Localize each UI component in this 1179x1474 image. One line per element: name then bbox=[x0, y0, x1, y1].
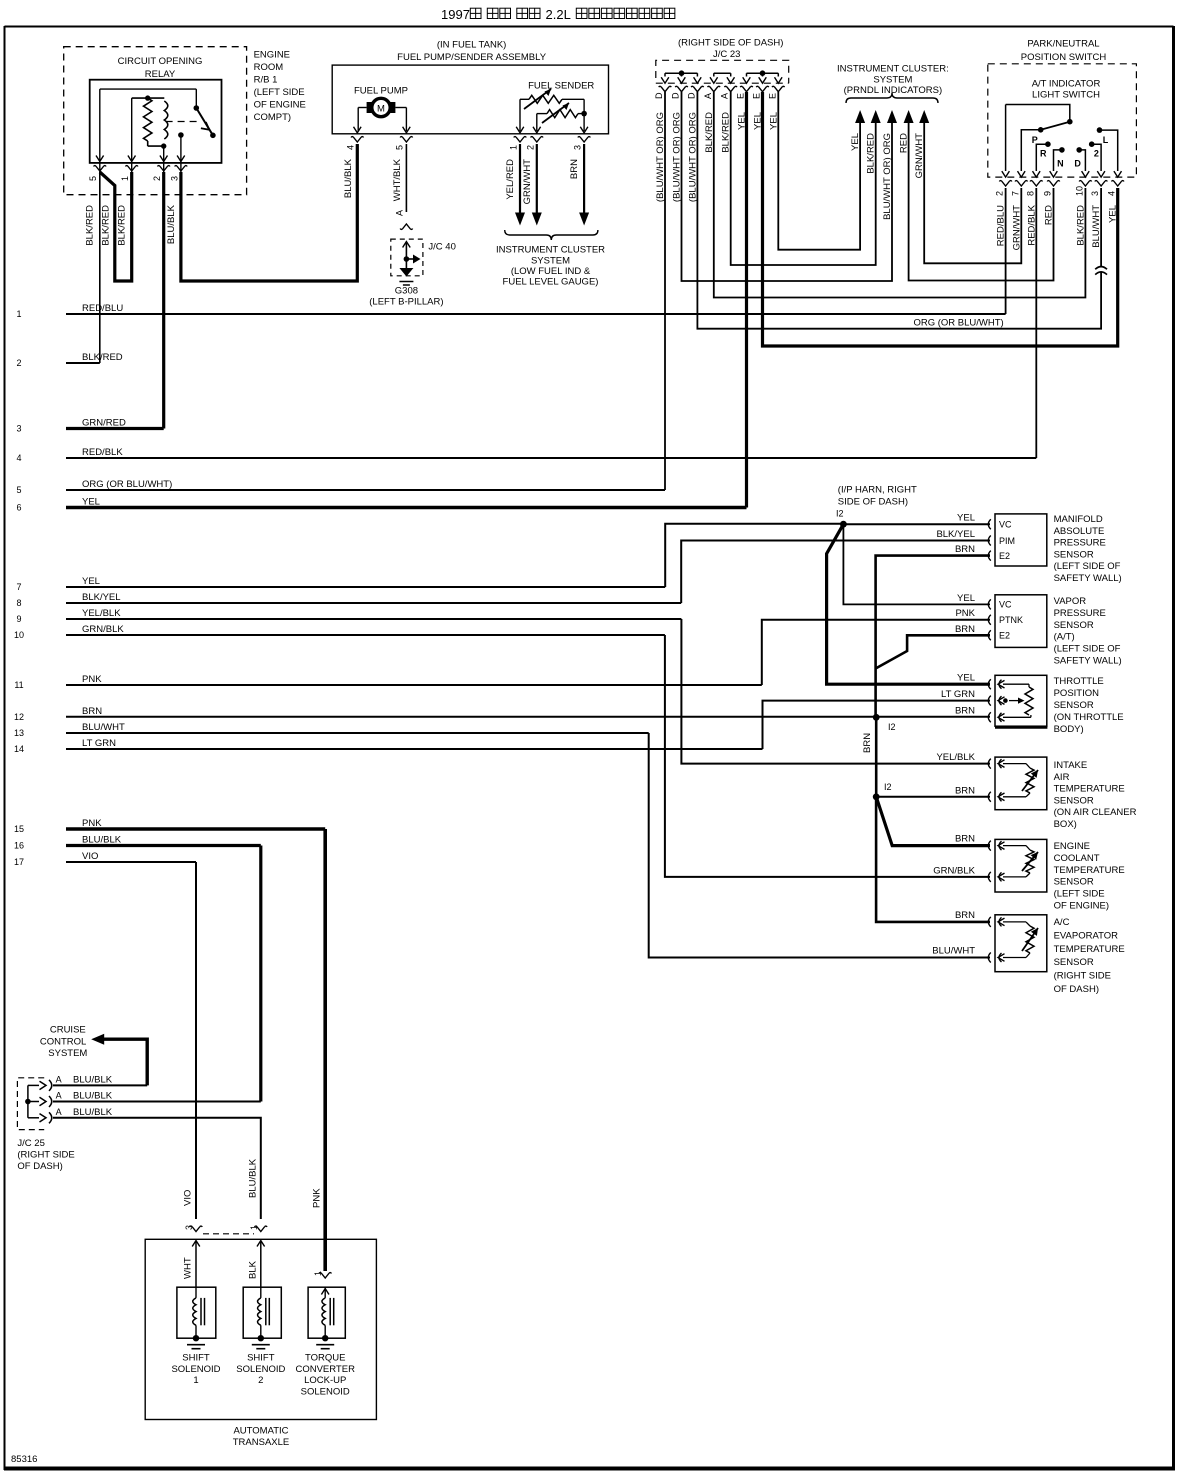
svg-text:7: 7 bbox=[16, 582, 21, 592]
wire: BRN I2 diagonal to ECT (heavy) bbox=[876, 797, 990, 846]
vapor pressure sensor bbox=[988, 595, 1121, 667]
svg-text:TRANSAXLE: TRANSAXLE bbox=[233, 1437, 290, 1448]
svg-text:YEL: YEL bbox=[957, 593, 975, 604]
svg-text:YEL: YEL bbox=[82, 576, 100, 587]
svg-text:BRN: BRN bbox=[955, 705, 975, 716]
svg-text:G308: G308 bbox=[395, 286, 418, 297]
J/C 23 internal bus D bbox=[665, 70, 697, 76]
svg-text:GRN/WHT: GRN/WHT bbox=[522, 159, 533, 205]
svg-text:BRN: BRN bbox=[955, 785, 975, 796]
svg-text:(LEFT SIDE: (LEFT SIDE bbox=[254, 87, 305, 98]
crossover hop on BLU/WHT wire bbox=[1095, 267, 1107, 275]
svg-text:(ON THROTTLE: (ON THROTTLE bbox=[1054, 712, 1124, 723]
shift solenoid 1 bbox=[171, 1287, 220, 1386]
wire 2 riser to relay pin 5 bbox=[99, 172, 101, 363]
svg-text:BLU/BLK: BLU/BLK bbox=[343, 158, 354, 198]
svg-text:RED/BLK: RED/BLK bbox=[82, 447, 123, 458]
svg-text:R/B 1: R/B 1 bbox=[254, 75, 278, 86]
J/C 23 pin E (E3) YEL bbox=[767, 77, 784, 130]
engine coolant temperature sensor bbox=[988, 839, 1124, 911]
wire: cluster RED to P/N pin 9 bbox=[909, 123, 1054, 281]
wire: J/C23 A2 BLK/RED to cluster BLK/RED bbox=[731, 92, 876, 265]
wire: J/C23 D2 ORG to cluster ORG bbox=[682, 92, 893, 281]
svg-text:PARK/NEUTRAL: PARK/NEUTRAL bbox=[1027, 39, 1099, 50]
torque converter solenoid pin 1 (PNK) bbox=[313, 1271, 331, 1295]
svg-text:7: 7 bbox=[1010, 191, 1020, 196]
instrument cluster system (PRNDL indicators) bbox=[837, 64, 949, 104]
svg-text:SIDE OF DASH): SIDE OF DASH) bbox=[838, 497, 908, 508]
svg-text:FUEL LEVEL GAUGE): FUEL LEVEL GAUGE) bbox=[503, 277, 599, 288]
svg-text:FUEL PUMP/SENDER ASSEMBLY: FUEL PUMP/SENDER ASSEMBLY bbox=[397, 52, 547, 63]
svg-text:I2: I2 bbox=[884, 782, 892, 792]
svg-text:(LEFT SIDE OF: (LEFT SIDE OF bbox=[1054, 561, 1121, 572]
svg-text:A: A bbox=[720, 93, 730, 99]
svg-text:A: A bbox=[395, 210, 405, 216]
cluster PRNDL arrow GRN/WHT bbox=[914, 110, 929, 178]
svg-text:ROOM: ROOM bbox=[254, 62, 284, 73]
wire: cluster GRN/WHT to P/N pin 7 bbox=[924, 123, 1021, 263]
svg-text:PNK: PNK bbox=[955, 608, 975, 619]
svg-text:SHIFT: SHIFT bbox=[247, 1353, 275, 1364]
svg-text:BLU/WHT: BLU/WHT bbox=[932, 946, 975, 957]
wire: J/C23 E3 YEL to cluster YEL bbox=[778, 92, 860, 250]
svg-text:1: 1 bbox=[249, 1225, 259, 1230]
svg-text:YEL: YEL bbox=[957, 673, 975, 684]
svg-text:A/T INDICATOR: A/T INDICATOR bbox=[1032, 79, 1101, 90]
svg-text:LOCK-UP: LOCK-UP bbox=[304, 1375, 346, 1386]
park/neutral pin 4 YEL bbox=[1107, 171, 1124, 223]
svg-text:D: D bbox=[686, 92, 696, 99]
svg-text:YEL/RED: YEL/RED bbox=[505, 159, 516, 200]
svg-text:SENSOR: SENSOR bbox=[1054, 877, 1094, 888]
wire 12 BRN bbox=[14, 706, 876, 722]
fuel sender pin 1 bbox=[505, 127, 526, 200]
svg-text:1: 1 bbox=[120, 176, 130, 181]
svg-text:(RIGHT SIDE: (RIGHT SIDE bbox=[17, 1150, 74, 1161]
wire 15 riser down to torque converter solenoid bbox=[312, 829, 326, 1271]
svg-text:BRN: BRN bbox=[955, 834, 975, 845]
svg-text:WHT: WHT bbox=[183, 1257, 194, 1279]
wire 10 GRN/BLK bbox=[14, 624, 665, 640]
svg-text:SENSOR: SENSOR bbox=[1054, 620, 1094, 631]
wire: J/C25-1 to cruise control bbox=[53, 1084, 147, 1086]
wire 2 BLK/RED bbox=[16, 352, 122, 368]
svg-text:1: 1 bbox=[16, 309, 21, 319]
svg-text:8: 8 bbox=[16, 598, 21, 608]
svg-text:1: 1 bbox=[313, 1271, 323, 1276]
svg-text:COOLANT: COOLANT bbox=[1054, 853, 1100, 864]
wire 10 down to ECT GRN/BLK bbox=[665, 635, 990, 877]
svg-text:TEMPERATURE: TEMPERATURE bbox=[1054, 865, 1125, 876]
svg-text:16: 16 bbox=[14, 841, 24, 851]
fuel pump motor M bbox=[354, 86, 408, 132]
svg-text:SOLENOID: SOLENOID bbox=[171, 1364, 220, 1375]
wire: J/C23 D1 ORG down to wire 5 bbox=[664, 92, 666, 490]
svg-text:A: A bbox=[703, 93, 713, 99]
svg-text:PIM: PIM bbox=[999, 536, 1015, 546]
svg-text:PNK: PNK bbox=[312, 1188, 323, 1208]
cruise control system bbox=[40, 1025, 147, 1086]
svg-text:BLU/BLK: BLU/BLK bbox=[73, 1107, 113, 1118]
svg-text:YEL/BLK: YEL/BLK bbox=[936, 752, 975, 763]
svg-text:RED/BLU: RED/BLU bbox=[82, 303, 123, 314]
svg-text:3: 3 bbox=[573, 145, 583, 150]
svg-text:YEL/BLK: YEL/BLK bbox=[82, 608, 121, 619]
J/C 23 internal bus A bbox=[714, 73, 731, 76]
I2 junction (I/P harn, right side of dash) bbox=[836, 485, 917, 528]
svg-text:14: 14 bbox=[14, 744, 24, 754]
wire 13 down to A/C evap BLU/WHT bbox=[649, 733, 990, 958]
svg-text:3: 3 bbox=[184, 1225, 194, 1230]
svg-text:CIRCUIT OPENING: CIRCUIT OPENING bbox=[118, 56, 203, 67]
svg-text:TEMPERATURE: TEMPERATURE bbox=[1054, 944, 1125, 955]
wire 7 jog up to I2 / MAP VC YEL bbox=[665, 513, 990, 588]
svg-text:I2: I2 bbox=[888, 722, 896, 732]
cluster PRNDL arrow BLK/RED bbox=[866, 110, 881, 174]
svg-text:PRESSURE: PRESSURE bbox=[1054, 608, 1106, 619]
svg-text:(LEFT SIDE OF: (LEFT SIDE OF bbox=[1054, 644, 1121, 655]
wire: BRN vapor E2 to BRN bus bbox=[876, 624, 990, 669]
svg-text:3: 3 bbox=[16, 424, 21, 434]
relay: circuit opening relay (engine room R/B 1) bbox=[64, 47, 306, 195]
svg-text:1997: 1997 bbox=[441, 7, 470, 22]
svg-text:WHT/BLK: WHT/BLK bbox=[392, 158, 403, 201]
svg-text:R: R bbox=[1040, 149, 1047, 159]
svg-text:(A/T): (A/T) bbox=[1054, 632, 1075, 643]
wire 3 GRN/RED bbox=[16, 418, 163, 434]
svg-text:BLK/RED: BLK/RED bbox=[116, 205, 127, 246]
A/C evaporator temperature sensor bbox=[988, 915, 1124, 995]
svg-text:4: 4 bbox=[16, 453, 21, 463]
svg-text:FUEL PUMP: FUEL PUMP bbox=[354, 86, 408, 97]
svg-text:13: 13 bbox=[14, 728, 24, 738]
svg-text:BRN: BRN bbox=[955, 624, 975, 635]
svg-text:BRN: BRN bbox=[955, 910, 975, 921]
svg-text:GRN/BLK: GRN/BLK bbox=[933, 865, 975, 876]
cluster PRNDL arrow RED bbox=[899, 110, 914, 153]
svg-text:BLK/YEL: BLK/YEL bbox=[82, 592, 121, 603]
wire 16 BLU/BLK bbox=[14, 835, 261, 851]
svg-text:2: 2 bbox=[152, 176, 162, 181]
svg-text:4: 4 bbox=[346, 145, 356, 150]
BRN bus from MAP E2 bbox=[876, 544, 990, 717]
wire 8 BLK/YEL bbox=[16, 592, 681, 608]
svg-text:BLU/BLK: BLU/BLK bbox=[73, 1074, 113, 1085]
J/C 23 pin E (E1) YEL bbox=[736, 77, 753, 130]
svg-text:2: 2 bbox=[1094, 149, 1099, 159]
transaxle pin 1 (BLU/BLK / BLK) bbox=[248, 1225, 268, 1287]
relay coil bbox=[132, 95, 168, 148]
svg-text:I2: I2 bbox=[836, 509, 844, 519]
cluster PRNDL arrow (BLU/WHT OR) ORG bbox=[882, 110, 897, 220]
svg-text:2.2L: 2.2L bbox=[546, 7, 571, 22]
transaxle pin 3 (VIO/WHT) bbox=[183, 1225, 203, 1287]
svg-text:POSITION: POSITION bbox=[1054, 688, 1100, 699]
relay pin 5 bbox=[88, 89, 106, 181]
svg-text:D: D bbox=[1074, 159, 1081, 169]
J/C 23 pin E (E2) YEL bbox=[752, 77, 769, 130]
svg-text:J/C 25: J/C 25 bbox=[17, 1138, 44, 1149]
cluster PRNDL arrow YEL bbox=[850, 110, 865, 151]
svg-text:11: 11 bbox=[14, 680, 23, 690]
svg-text:AUTOMATIC: AUTOMATIC bbox=[233, 1426, 288, 1437]
svg-text:E: E bbox=[767, 93, 777, 99]
svg-text:BOX): BOX) bbox=[1054, 819, 1077, 830]
manifold absolute pressure sensor bbox=[988, 514, 1121, 584]
svg-text:(LEFT B-PILLAR): (LEFT B-PILLAR) bbox=[369, 297, 443, 308]
svg-text:E2: E2 bbox=[999, 551, 1010, 561]
J/C 23 pin D (D3) (BLU/WHT OR) ORG bbox=[686, 77, 703, 202]
svg-text:(PRNDL INDICATORS): (PRNDL INDICATORS) bbox=[844, 85, 943, 96]
svg-text:BLK/RED: BLK/RED bbox=[82, 352, 123, 363]
svg-text:SENSOR: SENSOR bbox=[1054, 957, 1094, 968]
svg-text:4: 4 bbox=[1107, 191, 1117, 196]
wire 14 jog to throttle LT GRN bbox=[763, 689, 991, 749]
wire: J/C23 E1 YEL down to wire 6 bbox=[745, 92, 748, 508]
I2 heavy bus diagonal down to throttle VC bbox=[827, 524, 990, 684]
svg-text:BLU/WHT: BLU/WHT bbox=[82, 722, 125, 733]
title: 1997 Toyota Camry 2.2L engine performance circuit diagram bbox=[441, 7, 675, 22]
svg-text:M: M bbox=[377, 104, 385, 115]
wire 13 BLU/WHT bbox=[14, 722, 649, 738]
wire: YEL I2 to vapor VC bbox=[843, 524, 990, 604]
svg-text:SENSOR: SENSOR bbox=[1054, 795, 1094, 806]
svg-text:85316: 85316 bbox=[11, 1454, 37, 1465]
svg-text:J/C 40: J/C 40 bbox=[428, 242, 455, 253]
svg-text:ENGINE: ENGINE bbox=[1054, 841, 1090, 852]
fuel pump pin 4 bbox=[343, 127, 364, 198]
svg-text:OF ENGINE): OF ENGINE) bbox=[1054, 901, 1109, 912]
park/neutral pin 8 RED/BLK bbox=[1025, 171, 1042, 246]
svg-text:YEL: YEL bbox=[82, 497, 100, 508]
wire: BRN bus down to A/C evaporator bbox=[876, 797, 990, 922]
svg-text:2: 2 bbox=[995, 191, 1005, 196]
svg-text:BLU/BLK: BLU/BLK bbox=[73, 1091, 113, 1102]
wire 15 PNK bbox=[14, 818, 325, 834]
wire 4 riser to P/N pin 8 bbox=[1035, 188, 1037, 458]
junction block J/C 23 (right side of dash) bbox=[656, 38, 789, 84]
wire 9 jog to IAT YEL/BLK bbox=[681, 619, 990, 764]
wire 7 YEL bbox=[16, 576, 665, 592]
svg-text:OF ENGINE: OF ENGINE bbox=[254, 100, 306, 111]
svg-text:FUEL SENDER: FUEL SENDER bbox=[528, 81, 594, 92]
svg-text:ORG (OR BLU/WHT): ORG (OR BLU/WHT) bbox=[82, 479, 172, 490]
relay pin 1 bbox=[120, 98, 138, 181]
svg-text:2: 2 bbox=[258, 1375, 263, 1386]
svg-text:TORQUE: TORQUE bbox=[305, 1353, 345, 1364]
park/neutral pin 7 GRN/WHT bbox=[1010, 171, 1027, 250]
svg-text:INSTRUMENT CLUSTER:: INSTRUMENT CLUSTER: bbox=[837, 64, 949, 75]
svg-text:LT GRN: LT GRN bbox=[941, 689, 975, 700]
wire: J/C25-2 from wire 16 bbox=[53, 846, 261, 1102]
svg-text:INSTRUMENT CLUSTER: INSTRUMENT CLUSTER bbox=[496, 245, 605, 256]
ground G308 (left B-pillar) bbox=[369, 268, 443, 308]
svg-text:1: 1 bbox=[509, 145, 519, 150]
svg-text:VAPOR: VAPOR bbox=[1054, 596, 1087, 607]
wire: J/C25-3 down to shift solenoid 2 bbox=[53, 1118, 261, 1219]
svg-text:BRN: BRN bbox=[82, 706, 102, 717]
park/neutral position switch enclosure bbox=[988, 39, 1137, 178]
intake air temperature sensor bbox=[988, 757, 1136, 830]
wire 14 LT GRN bbox=[14, 738, 763, 754]
svg-text:COMPT): COMPT) bbox=[254, 112, 291, 123]
svg-text:PTNK: PTNK bbox=[999, 615, 1023, 625]
wire 1 RED/BLU bbox=[16, 303, 1005, 319]
svg-text:ENGINE: ENGINE bbox=[254, 50, 290, 61]
svg-text:LIGHT SWITCH: LIGHT SWITCH bbox=[1032, 90, 1100, 101]
svg-text:CONVERTER: CONVERTER bbox=[295, 1364, 355, 1375]
svg-text:SOLENOID: SOLENOID bbox=[236, 1364, 285, 1375]
svg-text:5: 5 bbox=[88, 176, 98, 181]
svg-text:(RIGHT SIDE OF DASH): (RIGHT SIDE OF DASH) bbox=[678, 38, 783, 49]
wire: J/C23 A1 to P/N pin 10 bbox=[714, 92, 1086, 298]
park/neutral pin 2 RED/BLU bbox=[995, 171, 1012, 246]
J/C 23 pin A (A2) BLK/RED bbox=[720, 77, 737, 152]
svg-text:BLU/BLK: BLU/BLK bbox=[248, 1158, 259, 1198]
svg-text:VIO: VIO bbox=[183, 1190, 194, 1206]
svg-text:12: 12 bbox=[14, 712, 24, 722]
wire 12 BRN to I2 dot and throttle BRN bbox=[862, 705, 990, 797]
svg-text:ABSOLUTE: ABSOLUTE bbox=[1054, 526, 1105, 537]
svg-text:VC: VC bbox=[999, 520, 1012, 530]
svg-text:CRUISE: CRUISE bbox=[50, 1025, 86, 1036]
svg-text:E: E bbox=[752, 93, 762, 99]
svg-text:SOLENOID: SOLENOID bbox=[301, 1386, 350, 1397]
svg-text:SAFETY WALL): SAFETY WALL) bbox=[1054, 656, 1122, 667]
svg-text:N: N bbox=[1057, 159, 1064, 169]
J/C 23 pin A (A1) BLK/RED bbox=[703, 77, 720, 152]
wire: ORG (OR BLU/WHT) J/C23 D3 to P/N pin 3 bbox=[697, 92, 1101, 329]
svg-text:LT GRN: LT GRN bbox=[82, 738, 116, 749]
svg-text:VC: VC bbox=[999, 600, 1012, 610]
J/C 25 connector 1 A BLU/BLK bbox=[28, 1074, 113, 1091]
fuel sender pin 3 bbox=[569, 127, 590, 179]
wire: BLU/BLK relay pin3 to fuel pump pin 4 bbox=[166, 144, 357, 281]
svg-text:MANIFOLD: MANIFOLD bbox=[1054, 514, 1103, 525]
svg-text:L: L bbox=[1103, 135, 1109, 145]
svg-text:BLK/RED: BLK/RED bbox=[101, 205, 112, 246]
J/C 23 internal bus E bbox=[747, 70, 779, 76]
svg-text:(LEFT SIDE: (LEFT SIDE bbox=[1054, 889, 1105, 900]
svg-text:9: 9 bbox=[1043, 191, 1053, 196]
J/C 25 connector 2 A BLU/BLK bbox=[28, 1091, 113, 1108]
svg-text:AIR: AIR bbox=[1054, 772, 1070, 783]
junction connector J/C 40 bbox=[391, 224, 456, 276]
J/C 23 pin D (D2) (BLU/WHT OR) ORG bbox=[671, 77, 688, 202]
wire 4 RED/BLK bbox=[16, 447, 1036, 463]
throttle position sensor bbox=[988, 675, 1123, 735]
svg-text:J/C 23: J/C 23 bbox=[713, 49, 740, 60]
relay pin 2 bbox=[152, 146, 170, 181]
svg-text:(I/P HARN, RIGHT: (I/P HARN, RIGHT bbox=[838, 485, 917, 496]
svg-text:PNK: PNK bbox=[82, 674, 102, 685]
svg-text:SYSTEM: SYSTEM bbox=[531, 256, 570, 267]
wire 17 riser down to transaxle pin 3 bbox=[183, 862, 197, 1219]
junction block J/C 25 (right side of dash) bbox=[17, 1078, 74, 1172]
svg-text:BLK/YEL: BLK/YEL bbox=[936, 529, 975, 540]
svg-text:(ON AIR CLEANER: (ON AIR CLEANER bbox=[1054, 807, 1137, 818]
wire 17 VIO bbox=[14, 851, 196, 867]
svg-text:BLK: BLK bbox=[248, 1260, 259, 1279]
wire 11 PNK bbox=[14, 674, 761, 690]
svg-text:INTAKE: INTAKE bbox=[1054, 760, 1088, 771]
svg-text:GRN/BLK: GRN/BLK bbox=[82, 624, 124, 635]
svg-text:(LOW FUEL IND &: (LOW FUEL IND & bbox=[511, 266, 591, 277]
wire: WHT/BLK fuel pump pin5 to J/C 40 bbox=[395, 144, 407, 216]
svg-text:A: A bbox=[56, 1074, 62, 1084]
svg-text:3: 3 bbox=[170, 176, 180, 181]
wire: YEL J/C23 E2 to P/N pin 4 (heavy) bbox=[763, 92, 1118, 346]
svg-text:GRN/RED: GRN/RED bbox=[82, 418, 126, 429]
torque converter lock-up solenoid bbox=[295, 1287, 355, 1397]
shift solenoid 2 bbox=[236, 1287, 285, 1386]
svg-text:BLK/RED: BLK/RED bbox=[84, 205, 95, 246]
svg-text:TEMPERATURE: TEMPERATURE bbox=[1054, 784, 1125, 795]
svg-text:SENSOR: SENSOR bbox=[1054, 700, 1094, 711]
automatic transaxle enclosure bbox=[145, 1234, 376, 1448]
svg-text:(IN FUEL TANK): (IN FUEL TANK) bbox=[437, 40, 507, 51]
wire 11 jog to vapor PTNK PNK bbox=[762, 608, 990, 685]
park/neutral pin 10 BLK/RED bbox=[1074, 171, 1091, 246]
wire: BLK/RED loop relay pin5 to pin1 bbox=[84, 172, 131, 281]
wire 8 jog to MAP PIM BLK/YEL bbox=[681, 529, 990, 603]
svg-text:ORG (OR BLU/WHT): ORG (OR BLU/WHT) bbox=[913, 318, 1003, 329]
wires: sender to instrument cluster (gauge) bbox=[515, 144, 589, 226]
fuel sender variable resistors bbox=[520, 81, 594, 132]
svg-text:D: D bbox=[671, 92, 681, 99]
svg-text:A/C: A/C bbox=[1054, 917, 1070, 928]
svg-text:BRN: BRN bbox=[955, 544, 975, 555]
park/neutral pin 3 BLU/WHT bbox=[1090, 171, 1107, 248]
svg-text:17: 17 bbox=[14, 857, 24, 867]
svg-text:E2: E2 bbox=[999, 631, 1010, 641]
svg-text:BRN: BRN bbox=[569, 159, 580, 179]
svg-text:E: E bbox=[736, 93, 746, 99]
svg-text:10: 10 bbox=[1074, 186, 1084, 196]
svg-text:D: D bbox=[654, 92, 664, 99]
wire 5 ORG (OR BLU/WHT) bbox=[16, 479, 665, 495]
relay switch contact bbox=[100, 89, 216, 138]
svg-text:EVAPORATOR: EVAPORATOR bbox=[1054, 930, 1119, 941]
svg-text:POSITION SWITCH: POSITION SWITCH bbox=[1021, 52, 1107, 63]
svg-text:SHIFT: SHIFT bbox=[182, 1353, 210, 1364]
J/C 25 connector 3 A BLU/BLK bbox=[28, 1107, 113, 1124]
fuel pump/sender assembly enclosure bbox=[332, 40, 608, 134]
svg-text:SAFETY WALL): SAFETY WALL) bbox=[1054, 573, 1122, 584]
A/T indicator switch contacts bbox=[1006, 105, 1118, 172]
svg-text:(RIGHT SIDE: (RIGHT SIDE bbox=[1054, 971, 1111, 982]
svg-text:9: 9 bbox=[16, 614, 21, 624]
wire 9 YEL/BLK bbox=[16, 608, 681, 624]
wire 6 YEL bbox=[16, 497, 746, 513]
svg-text:A: A bbox=[56, 1091, 62, 1101]
wire: BRN I2 to IAT bbox=[873, 782, 990, 800]
svg-text:OF DASH): OF DASH) bbox=[1054, 984, 1099, 995]
svg-text:PNK: PNK bbox=[82, 818, 102, 829]
svg-text:SYSTEM: SYSTEM bbox=[48, 1048, 87, 1059]
svg-text:RELAY: RELAY bbox=[145, 69, 176, 80]
svg-text:CONTROL: CONTROL bbox=[40, 1037, 86, 1048]
svg-text:THROTTLE: THROTTLE bbox=[1054, 676, 1104, 687]
svg-text:OF DASH): OF DASH) bbox=[17, 1161, 62, 1172]
svg-text:BLU/BLK: BLU/BLK bbox=[166, 204, 177, 244]
svg-text:YEL: YEL bbox=[957, 513, 975, 524]
svg-text:15: 15 bbox=[14, 824, 24, 834]
svg-text:BRN: BRN bbox=[862, 733, 873, 753]
svg-text:5: 5 bbox=[395, 145, 405, 150]
svg-text:BODY): BODY) bbox=[1054, 724, 1084, 735]
svg-text:3: 3 bbox=[1090, 191, 1100, 196]
